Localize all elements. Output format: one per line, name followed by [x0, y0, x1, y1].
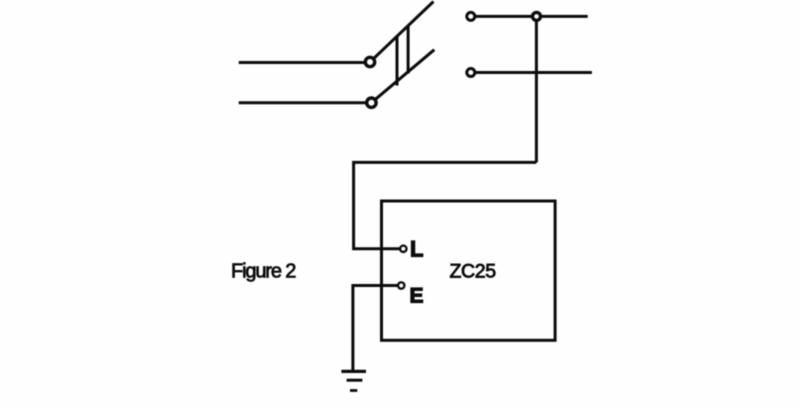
svg-text:E: E	[410, 285, 424, 308]
svg-text:L: L	[410, 237, 423, 262]
svg-text:ZC25: ZC25	[450, 260, 497, 282]
svg-text:Figure 2: Figure 2	[231, 261, 296, 283]
